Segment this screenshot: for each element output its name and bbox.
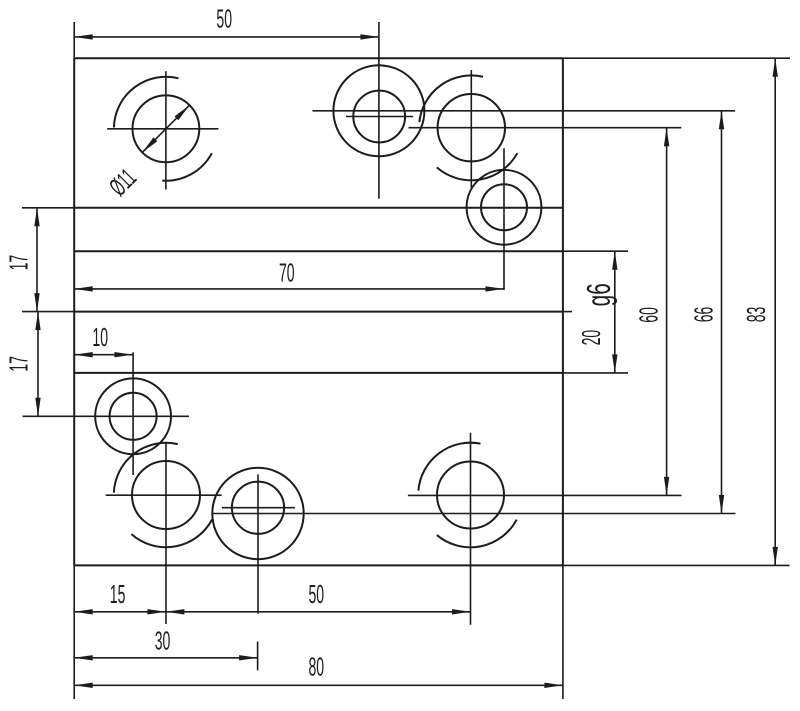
hole H3 counterbore arc upper-left — [419, 75, 483, 122]
extension y309 right — [563, 311, 572, 313]
dim 60 bottom arrowhead — [664, 477, 669, 496]
hole H7 centerline tick for 30-dim — [257, 642, 259, 671]
svg-text:17: 17 — [5, 255, 34, 271]
hole H7 inner circle — [232, 482, 284, 534]
hole H3 circle — [438, 94, 505, 161]
svg-text:50: 50 — [216, 5, 232, 34]
dim 66 top arrowhead — [719, 111, 724, 130]
svg-text:66: 66 — [690, 307, 719, 323]
dim 17 lower top arrowhead — [35, 312, 40, 331]
hole H1 horizontal centerline — [107, 128, 218, 130]
hole H2 inner circle — [353, 91, 405, 143]
hole H3 horizontal centerline / 60-dim extension — [409, 127, 682, 129]
dim 17 lower bottom arrowhead — [35, 398, 40, 417]
dim 66 line — [721, 111, 723, 514]
hole H6 vertical centerline — [165, 443, 167, 624]
hole H1 vertical centerline — [165, 71, 167, 189]
hole H1 counterbore arc upper-left — [114, 77, 179, 128]
hole H4 inner circle — [481, 184, 527, 230]
dim 50 top right arrowhead — [360, 34, 379, 39]
dim 80 line — [74, 684, 563, 686]
hole H8 circle — [437, 462, 504, 529]
svg-text:Ø11: Ø11 — [104, 164, 142, 202]
hole H4 vertical centerline — [503, 148, 505, 290]
hole H7 outer circle — [212, 468, 303, 559]
hole H6 counterbore arc lower — [131, 520, 212, 548]
extension left edge top — [73, 22, 75, 58]
hole H7 horizontal centerline / 66-dim extension — [212, 513, 736, 515]
dim 17 upper bottom arrowhead — [34, 293, 39, 312]
dim 15 left arrowhead — [74, 609, 93, 614]
extension y371 right — [563, 372, 628, 374]
svg-text:15: 15 — [110, 581, 126, 610]
plate groove top edge y251 — [74, 250, 563, 252]
hole H1 counterbore arc lower-right — [162, 153, 212, 181]
dim 17 lower line — [37, 312, 39, 417]
dim 66 bottom arrowhead — [719, 495, 724, 514]
dim 30 right arrowhead — [239, 655, 258, 660]
dim 10 line — [74, 354, 133, 356]
svg-text:10: 10 — [92, 324, 108, 353]
dim 15 right arrowhead — [147, 609, 166, 614]
dim 50 bottom right arrowhead — [452, 609, 471, 614]
hole H8 vertical centerline — [470, 433, 472, 625]
dim 70 right arrowhead — [486, 286, 505, 291]
extension y309 left — [22, 311, 74, 313]
dim 83 top arrowhead — [773, 58, 778, 76]
svg-text:70: 70 — [279, 259, 295, 288]
dim 70 line — [74, 288, 504, 290]
dim 10 right arrowhead — [115, 352, 134, 357]
hole H5 inner circle — [110, 393, 157, 440]
dim 20g6 top arrowhead — [612, 251, 617, 270]
plate groove bottom edge y371 — [74, 372, 563, 374]
hole H8 counterbore arc lower — [437, 520, 517, 548]
plate step edge y207 — [74, 207, 563, 209]
dim 50 bottom line — [166, 611, 471, 613]
plate bottom edge — [74, 564, 563, 566]
dim 60 top arrowhead — [664, 128, 669, 147]
hole H2 inner-circle centerline bar — [346, 116, 413, 118]
dim 20g6 bottom arrowhead — [612, 354, 617, 373]
extension top edge right — [563, 57, 790, 59]
hole H6 horizontal centerline — [106, 494, 222, 496]
svg-text:83: 83 — [743, 307, 772, 323]
hole H6 counterbore arc upper-left — [114, 443, 178, 493]
svg-text:60: 60 — [635, 307, 664, 323]
hole H5 outer circle — [95, 378, 171, 454]
hole H7 vertical centerline — [257, 474, 259, 613]
hole H1 circle (Ø11) — [133, 95, 200, 162]
hole H2 horizontal centerline / 66-dim extension — [313, 110, 736, 112]
hole H3 counterbore arc lower — [437, 153, 518, 180]
extension right edge bottom — [562, 565, 564, 699]
dim 17 upper line — [36, 208, 38, 312]
plate right edge — [562, 58, 564, 565]
plate step edge y309 — [74, 311, 563, 313]
dim 30 left arrowhead — [74, 655, 93, 660]
hole H8 horizontal centerline / 60-dim extension — [408, 494, 682, 496]
svg-text:80: 80 — [309, 653, 325, 682]
svg-text:20: 20 — [578, 330, 607, 346]
dim 30 line — [74, 657, 257, 659]
dim 50 bottom left arrowhead — [166, 609, 185, 614]
hole H7 inner-circle centerline bar — [222, 507, 295, 509]
plate left edge — [73, 58, 75, 565]
dim 50 top left arrowhead — [74, 34, 93, 39]
hole H4 outer circle — [467, 170, 542, 245]
dim 80 right arrowhead — [544, 683, 563, 688]
hole H5 horizontal centerline / 17-dim extension — [23, 415, 190, 417]
extension y251 right — [563, 250, 628, 252]
extension y207 left — [22, 207, 74, 209]
hole H8 counterbore arc upper-left — [418, 443, 480, 491]
svg-text:17: 17 — [5, 356, 34, 372]
extension left edge bottom — [73, 565, 75, 699]
dim 83 bottom arrowhead — [773, 547, 778, 566]
dim 15 line — [74, 611, 166, 613]
dim 60 line — [666, 128, 668, 496]
hole H5 vertical centerline — [132, 352, 134, 475]
extension bottom edge right — [563, 564, 790, 566]
dim 10 left arrowhead — [74, 352, 93, 357]
dim 17 upper top arrowhead — [34, 208, 39, 227]
dim 80 left arrowhead — [74, 683, 93, 688]
hole H3 vertical centerline — [470, 70, 472, 188]
svg-text:50: 50 — [309, 581, 325, 610]
hole H2 outer circle — [333, 65, 424, 156]
dim 20g6 line — [614, 251, 616, 373]
dim 70 left arrowhead — [74, 286, 93, 291]
hole H6 circle — [132, 461, 200, 529]
plate top edge — [74, 57, 563, 59]
hole H1 diameter arrowhead SW — [142, 137, 157, 152]
svg-text:g6: g6 — [580, 283, 617, 306]
hole H1 diameter arrowhead NE — [175, 105, 190, 120]
hole H2 vertical centerline — [378, 22, 380, 199]
dim 50 top line — [74, 36, 379, 38]
svg-text:30: 30 — [155, 627, 171, 656]
hole H1 diameter leader line — [142, 105, 189, 152]
dim 83 line — [774, 58, 776, 565]
